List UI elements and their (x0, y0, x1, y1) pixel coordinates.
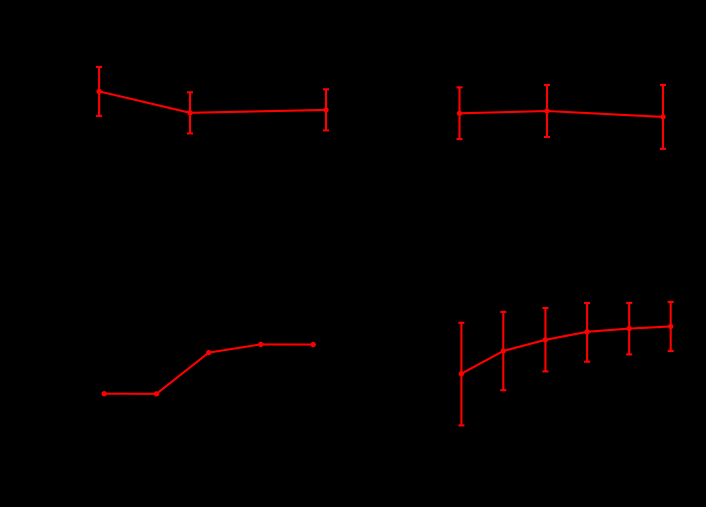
errorbar series bottom-right subplot (458, 302, 673, 426)
error bar bottom-right point 2 (500, 312, 506, 390)
data line bottom-left (104, 344, 313, 393)
error bar top-left point 1 (96, 67, 102, 116)
errorbar series top-left subplot (96, 67, 329, 133)
data markers top-right (457, 108, 666, 119)
data line bottom-right (461, 326, 670, 373)
errorbar series top-right subplot (457, 85, 667, 149)
data line top-left (99, 91, 326, 112)
error bar top-right point 3 (660, 85, 666, 149)
error bar bottom-right point 4 (584, 303, 590, 362)
error bar top-left point 3 (323, 89, 329, 130)
error bar top-right point 2 (544, 85, 550, 137)
error bar bottom-right point 6 (668, 302, 674, 351)
error bar bottom-right point 1 (458, 323, 464, 426)
data markers bottom-left (102, 342, 316, 397)
data markers bottom-right (459, 324, 674, 377)
data markers top-left (96, 89, 328, 116)
error bar top-right point 1 (457, 87, 463, 139)
error bar bottom-right point 5 (626, 303, 632, 355)
error bar bottom-right point 3 (542, 308, 548, 371)
data line top-right (460, 111, 664, 117)
errorbar series bottom-left subplot (104, 344, 313, 393)
error bar top-left point 2 (187, 92, 193, 133)
